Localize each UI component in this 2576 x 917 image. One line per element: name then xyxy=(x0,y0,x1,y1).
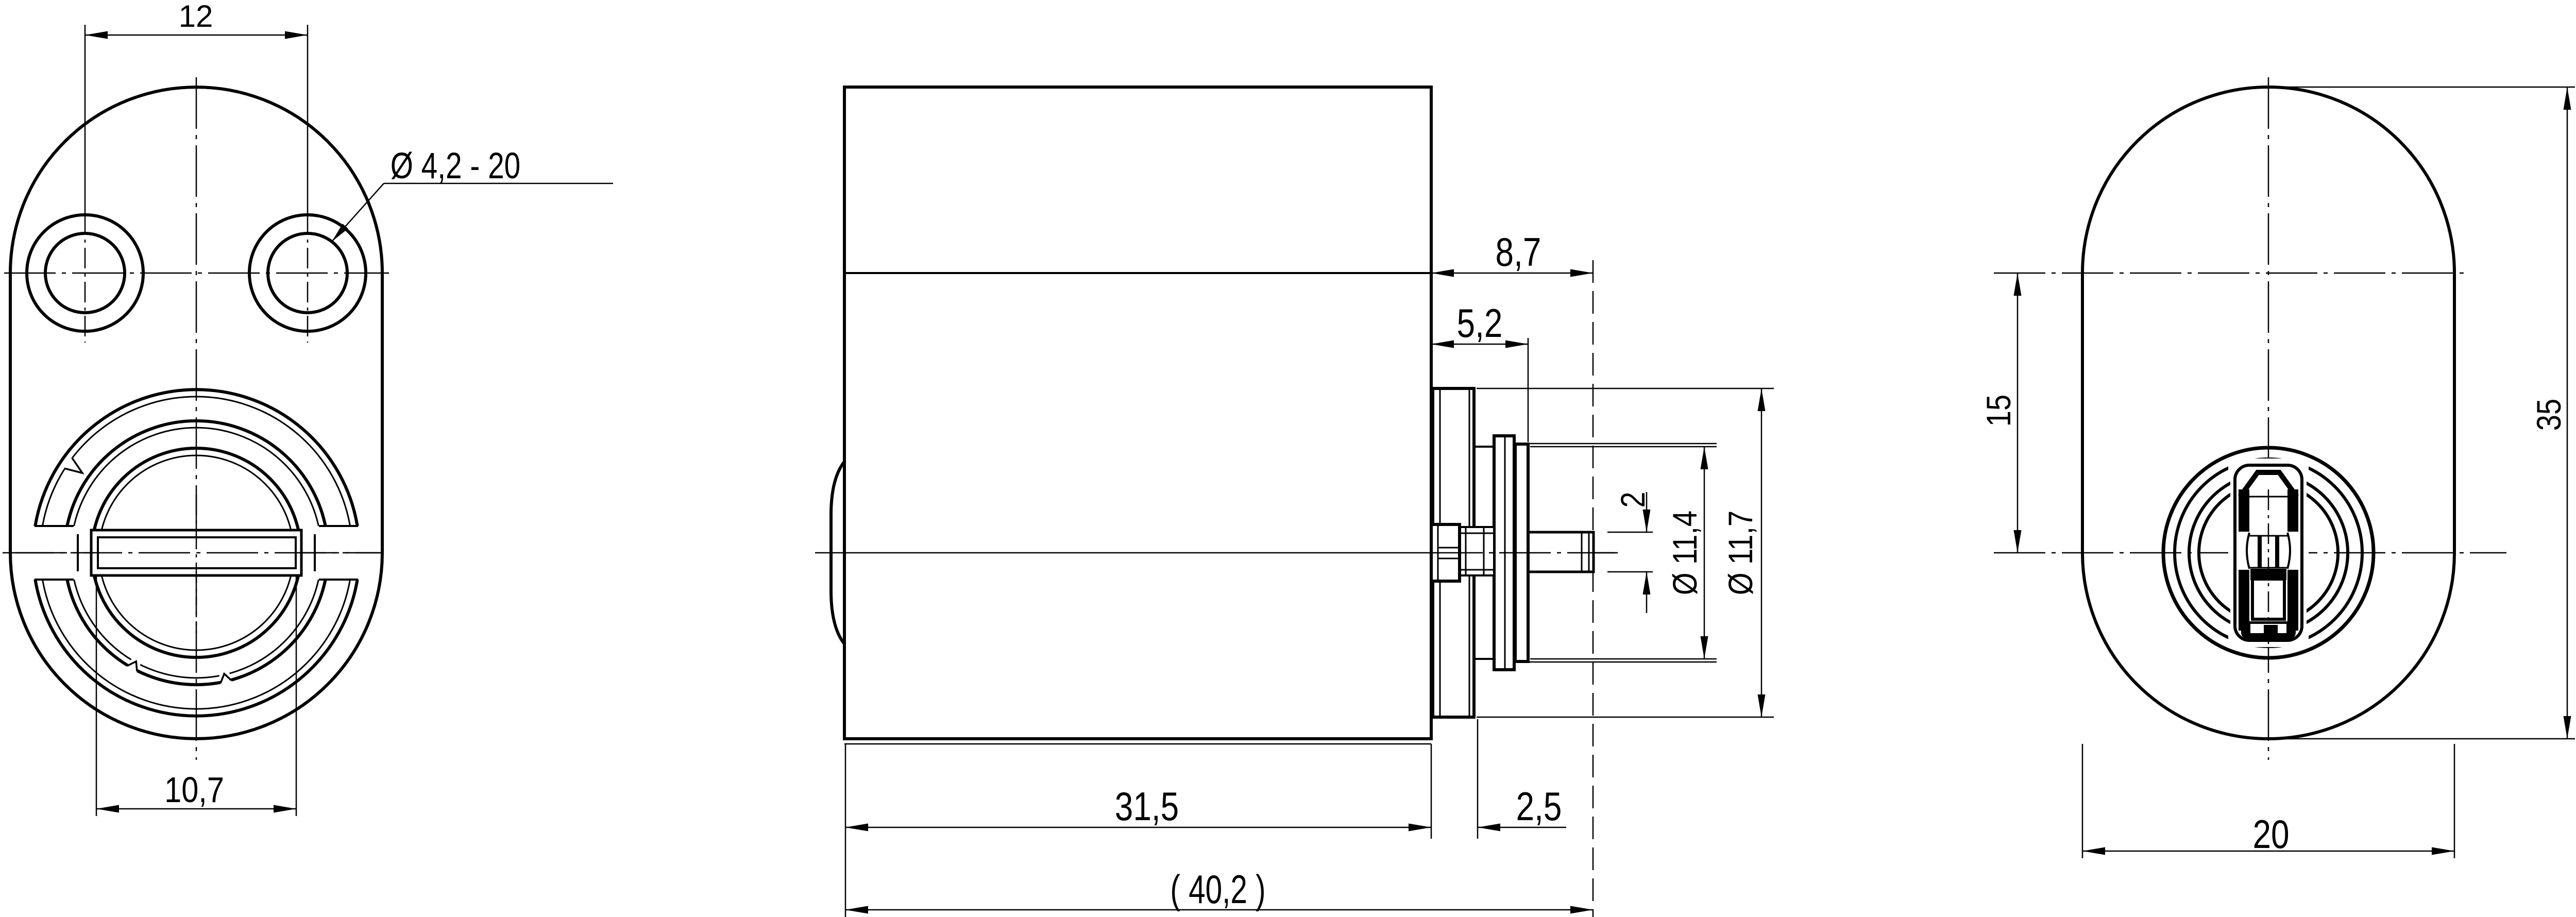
svg-text:15: 15 xyxy=(1980,395,2018,427)
svg-text:10,7: 10,7 xyxy=(164,769,224,810)
svg-text:35: 35 xyxy=(2530,399,2568,431)
svg-text:( 40,2 ): ( 40,2 ) xyxy=(1170,867,1265,912)
svg-text:5,2: 5,2 xyxy=(1457,301,1503,346)
svg-text:12: 12 xyxy=(179,0,213,33)
svg-text:31,5: 31,5 xyxy=(1115,784,1179,829)
svg-text:20: 20 xyxy=(2252,812,2289,857)
svg-text:Ø 4,2 - 20: Ø 4,2 - 20 xyxy=(391,145,521,186)
svg-text:2: 2 xyxy=(1614,491,1652,507)
svg-text:Ø 11,4: Ø 11,4 xyxy=(1666,511,1704,595)
svg-text:2,5: 2,5 xyxy=(1516,784,1562,829)
svg-text:8,7: 8,7 xyxy=(1496,230,1541,275)
svg-text:Ø 11,7: Ø 11,7 xyxy=(1722,511,1759,595)
